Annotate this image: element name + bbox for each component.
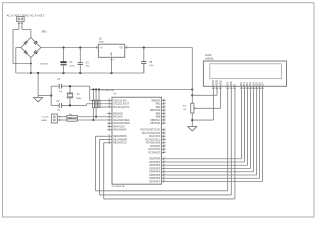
wire osc caps common: [50, 86, 52, 105]
U1 pin 29 RD6/PSP6: [149, 177, 165, 180]
crystal X1: [67, 86, 73, 105]
U1 pin 35 RB2: [156, 105, 166, 108]
U1 pin 28 RD5/PSP5: [149, 173, 165, 176]
LCD pin 12 D5: [254, 82, 258, 90]
bridge rectifier BR1: [21, 38, 41, 58]
svg-text:RB3/PGM: RB3/PGM: [150, 110, 160, 112]
junction W rail: [191, 88, 193, 90]
value 2W005G: [40, 63, 48, 65]
LCD pin 6 E: [233, 84, 237, 90]
junction W R5: [98, 88, 100, 90]
label U1: [113, 93, 117, 96]
U1 pin 6 RA4/T0CKI: [107, 125, 125, 128]
connector J2 (AC input): [17, 17, 24, 30]
junction W R4: [95, 88, 97, 90]
svg-text:2: 2: [113, 60, 114, 62]
LCD screen: [210, 64, 282, 79]
svg-text:100n: 100n: [149, 65, 153, 67]
svg-text:C8: C8: [149, 62, 153, 64]
U1 pin 18 RC3/SCK/SCL: [145, 138, 165, 141]
svg-text:OSC2/CLKOUT: OSC2/CLKOUT: [113, 104, 130, 106]
svg-text:RD7/PSP7: RD7/PSP7: [149, 181, 161, 183]
wire RD7 to LCD D7: [166, 90, 263, 182]
svg-text:RD5/PSP5: RD5/PSP5: [149, 175, 161, 177]
junction bridge bottom: [30, 63, 32, 65]
svg-text:RB1: RB1: [156, 104, 161, 106]
U1 pin 40 RB7/PGD: [150, 122, 165, 125]
svg-text:BR1: BR1: [42, 30, 47, 33]
U1 pin 8 RE0/AN5/RD: [107, 135, 127, 138]
svg-text:RD0/PSP0: RD0/PSP0: [149, 159, 161, 161]
svg-text:22p: 22p: [59, 91, 62, 93]
label X1 4MHz: [76, 94, 81, 100]
svg-text:40: 40: [163, 122, 165, 124]
junction X1 bottom: [69, 104, 71, 106]
wire bridge bottom vertex to ground bus: [30, 58, 32, 74]
wire RD0 to LCD D0: [166, 90, 242, 159]
U1 pin 5 RA3/AN3/VREF+: [107, 122, 131, 125]
svg-text:22: 22: [163, 167, 165, 169]
label C2 22p: [57, 101, 61, 111]
svg-text:4MHz: 4MHz: [76, 98, 81, 100]
svg-text:RE0/AN5/RD: RE0/AN5/RD: [113, 135, 127, 138]
U1 pin 19 RD0/PSP0: [149, 157, 165, 160]
label LCD4 LM016L: [205, 54, 214, 60]
svg-text:9: 9: [246, 88, 247, 90]
U1 pin 36 RB3/PGM: [150, 109, 166, 112]
svg-text:CLOCK: CLOCK: [41, 117, 49, 119]
svg-text:E: E: [233, 84, 237, 86]
wire bridge left vertex to ground bus: [16, 48, 21, 74]
wire rail bridge to U2: [41, 47, 99, 49]
capacitor C8: [141, 48, 146, 74]
op-amp U1 body: [112, 97, 161, 184]
junction bus at C4: [79, 72, 81, 74]
svg-text:5: 5: [230, 88, 231, 90]
U1 pin 22 RD3/PSP3: [149, 167, 165, 170]
junction W R3: [92, 88, 94, 90]
svg-text:100n: 100n: [86, 66, 90, 68]
svg-text:RB7/PGD: RB7/PGD: [150, 123, 160, 125]
svg-text:1: 1: [96, 46, 97, 48]
label PIC16F877A: [112, 185, 125, 188]
LCD pin 11 D4: [251, 82, 255, 90]
capacitor C1: [51, 84, 89, 89]
U1 pin 38 RB5: [156, 115, 166, 118]
wire DATA to RA2: [77, 119, 107, 121]
capacitor C3: [60, 48, 66, 74]
wire bus to ground symbol: [37, 73, 39, 97]
wire OSC1: [90, 86, 108, 100]
U1 pin 20 RD1/PSP1: [149, 160, 165, 163]
U1 pin 15 RC0/T1OSO/T1CKI: [140, 128, 165, 131]
U1 pin 33 RB0/INT: [152, 99, 166, 102]
U1 pin 10 RE2/AN7/CS: [107, 141, 127, 144]
svg-text:RC5/SDO: RC5/SDO: [150, 146, 160, 148]
svg-text:5: 5: [108, 122, 109, 124]
svg-text:AC 6 VOLT 50HZ AC 6 VOLT: AC 6 VOLT 50HZ AC 6 VOLT: [7, 14, 45, 18]
junction bus at gnd symbol: [37, 72, 39, 74]
svg-text:OSC1/CLKIN: OSC1/CLKIN: [113, 100, 127, 102]
svg-text:39: 39: [163, 118, 165, 120]
U1 pin 26 RC7/RX/DT: [148, 151, 165, 154]
svg-text:34: 34: [163, 102, 165, 104]
label R1 10k: [69, 114, 73, 116]
svg-text:U2: U2: [99, 37, 103, 40]
wire RD2 to LCD D2: [166, 90, 248, 166]
LCD pin 1 VSS: [211, 80, 215, 90]
svg-text:22p: 22p: [57, 110, 60, 112]
U1 pin 13 OSC1/CLKIN: [107, 99, 127, 102]
junction rail at C8: [143, 46, 145, 48]
svg-text:2: 2: [108, 112, 109, 114]
junction rail VDD: [191, 94, 193, 96]
U1 pin 2 RA0/AN0: [107, 112, 123, 115]
svg-text:25: 25: [163, 148, 165, 150]
wire RD3 to LCD D3: [166, 90, 251, 169]
svg-text:3: 3: [127, 46, 128, 48]
resistor R1 (CLOCK series): [67, 116, 78, 118]
svg-text:28: 28: [163, 173, 165, 175]
wire RE1 to LCD RW: [100, 90, 232, 195]
svg-text:RA0/AN0: RA0/AN0: [113, 112, 123, 115]
capacitor C2: [51, 103, 86, 108]
svg-text:C1: C1: [57, 79, 61, 81]
resistor R3 (pull-up): [92, 90, 94, 121]
svg-text:15: 15: [163, 128, 165, 130]
svg-text:30: 30: [163, 180, 165, 182]
svg-text:13: 13: [257, 88, 259, 90]
wire J1 pin1: [57, 116, 67, 118]
svg-text:C2: C2: [57, 101, 61, 103]
svg-text:38: 38: [163, 115, 165, 117]
svg-text:1: 1: [212, 88, 213, 90]
svg-text:18: 18: [163, 138, 165, 140]
label BR1: [42, 30, 47, 33]
svg-text:RC6/TX/CK: RC6/TX/CK: [148, 149, 160, 151]
svg-text:C4: C4: [86, 62, 90, 64]
svg-text:U1: U1: [113, 93, 117, 96]
wire rail U2 to LCD branch: [125, 47, 193, 49]
labels CLOCK DATA: [41, 117, 49, 123]
junction rail VSS: [191, 119, 193, 121]
wire AC left to DC- node: [13, 29, 31, 63]
svg-text:24: 24: [163, 144, 165, 146]
svg-text:MCLR/Vpp/THV: MCLR/Vpp/THV: [113, 107, 130, 109]
wire RE0 to LCD RS: [96, 90, 228, 191]
junction bus at U2 gnd: [110, 72, 112, 74]
connector J1: [51, 114, 57, 123]
svg-text:7: 7: [240, 88, 241, 90]
wire RD1 to LCD D1: [166, 90, 245, 162]
svg-text:7805: 7805: [99, 42, 105, 44]
U1 pin 23 RC4/SDI/SDA: [146, 141, 166, 144]
AC input label: [7, 14, 45, 18]
wire rail down to pot: [191, 48, 193, 104]
svg-text:RA2/AN2/VREF-: RA2/AN2/VREF-: [113, 119, 130, 122]
LCD pin 3 VEE: [218, 80, 222, 90]
ground symbol (pot): [188, 127, 197, 131]
label C4 100n: [86, 62, 90, 67]
svg-text:2: 2: [215, 88, 216, 90]
svg-text:27: 27: [163, 170, 165, 172]
svg-text:RA3/AN3/VREF+: RA3/AN3/VREF+: [113, 122, 131, 125]
svg-text:RB0/INT: RB0/INT: [152, 100, 161, 102]
label PIC16F877A (top): [101, 89, 114, 92]
svg-text:33: 33: [163, 99, 165, 101]
regulator U2 7805 body: [98, 44, 124, 57]
svg-text:RE2/AN7/CS: RE2/AN7/CS: [113, 142, 127, 145]
svg-text:3: 3: [108, 115, 109, 117]
LCD pin 7 D0: [239, 82, 243, 90]
svg-text:X1: X1: [77, 94, 81, 96]
svg-text:4: 4: [108, 118, 109, 120]
svg-text:RB4: RB4: [156, 113, 161, 115]
U1 pin 24 RC5/SDO: [150, 144, 165, 147]
svg-text:RB5: RB5: [156, 117, 161, 119]
svg-text:6: 6: [108, 125, 109, 127]
svg-text:23: 23: [163, 141, 165, 143]
svg-text:RD6/PSP6: RD6/PSP6: [149, 178, 161, 180]
svg-text:1: 1: [108, 105, 109, 107]
wire AC right to bridge top: [22, 29, 31, 37]
wire U2 GND to bus: [111, 57, 113, 73]
svg-text:1000u: 1000u: [69, 65, 74, 67]
wire RE2 to LCD E: [104, 90, 235, 199]
junction osc common: [50, 94, 52, 96]
svg-text:10: 10: [248, 88, 250, 90]
svg-text:VO: VO: [119, 48, 123, 50]
wire pot to ground: [191, 113, 193, 126]
svg-text:10: 10: [108, 141, 110, 143]
U1 pin 9 RE1/AN6/WR: [107, 138, 127, 141]
U1 pin 34 RB1: [156, 102, 166, 105]
svg-text:19: 19: [163, 157, 165, 159]
svg-text:DATA: DATA: [41, 119, 47, 122]
svg-text:RC4/SDI/SDA: RC4/SDI/SDA: [146, 142, 161, 145]
wire OSC2: [87, 104, 108, 106]
svg-text:13: 13: [108, 99, 110, 101]
svg-text:RA4/T0CKI: RA4/T0CKI: [113, 125, 125, 128]
junction R3 DATA: [92, 119, 94, 121]
svg-text:RC3/SCK/SCL: RC3/SCK/SCL: [145, 139, 161, 141]
wire gnd to LCD VSS: [192, 86, 213, 120]
LCD pin 5 RW: [229, 81, 233, 90]
wire R5 to MCLR: [99, 106, 107, 109]
label U2 7805: [99, 37, 105, 43]
svg-text:RD4/PSP4: RD4/PSP4: [149, 172, 161, 174]
svg-text:12: 12: [254, 88, 256, 90]
svg-text:21: 21: [163, 164, 165, 166]
U1 pin 30 RD7/PSP7: [149, 180, 165, 183]
svg-text:RE1/AN6/WR: RE1/AN6/WR: [113, 138, 127, 141]
svg-text:RD2/PSP2: RD2/PSP2: [149, 165, 161, 167]
svg-text:2W005G: 2W005G: [40, 63, 48, 65]
svg-text:RA1/AN1: RA1/AN1: [113, 116, 123, 119]
U1 pin 3 RA1/AN1: [107, 115, 123, 118]
wire +5V to LCD VDD: [192, 86, 217, 95]
junction rail at C3: [62, 46, 64, 48]
svg-text:8: 8: [108, 135, 109, 137]
svg-text:RC1/T1OSI/CCP2: RC1/T1OSI/CCP2: [142, 133, 161, 135]
U1 pin 39 RB6/PGC: [150, 118, 165, 121]
junction R4 CLOCK: [95, 116, 97, 118]
svg-text:10K: 10K: [183, 109, 187, 111]
resistor R4 (pull-up): [95, 90, 97, 117]
resistor R2 (DATA series): [67, 119, 78, 121]
wire ground bus: [16, 64, 144, 74]
svg-text:RB6/PGC: RB6/PGC: [150, 120, 160, 122]
svg-text:29: 29: [163, 177, 165, 179]
svg-text:PIC16F877A: PIC16F877A: [101, 89, 114, 92]
svg-text:3: 3: [219, 88, 220, 90]
wire osc common to ground: [38, 95, 51, 97]
svg-text:14: 14: [108, 102, 110, 104]
svg-text:6: 6: [233, 88, 234, 90]
capacitor C4: [78, 48, 83, 74]
svg-text:GND: GND: [111, 52, 113, 57]
svg-text:RD1/PSP1: RD1/PSP1: [149, 162, 161, 164]
svg-text:LM016L: LM016L: [205, 57, 214, 60]
svg-text:17: 17: [163, 135, 165, 137]
svg-text:RC0/T1OSO/T1CKI: RC0/T1OSO/T1CKI: [140, 130, 160, 132]
U1 pin 7 RA5/AN4/SS: [107, 128, 127, 131]
svg-text:RV1: RV1: [183, 105, 187, 107]
svg-text:9: 9: [108, 138, 109, 140]
LCD pin 8 D1: [242, 82, 246, 90]
svg-text:14: 14: [260, 88, 262, 90]
LCD pin 14 D7: [260, 82, 264, 90]
wire RD5 to LCD D5: [166, 90, 257, 175]
svg-text:D7: D7: [260, 82, 264, 86]
label C1 22p: [57, 79, 62, 93]
wire CLOCK to RA1: [77, 116, 107, 118]
svg-text:11: 11: [251, 88, 253, 90]
U2 pin ticks and numbers: [96, 46, 98, 48]
svg-text:VEE: VEE: [218, 80, 222, 86]
wire J1 pin2: [57, 119, 67, 121]
svg-text:C3: C3: [69, 62, 73, 64]
U1 pin 21 RD2/PSP2: [149, 164, 165, 167]
wire +5V to pull-ups: [90, 89, 193, 91]
U1 pin 16 RC1/T1OSI/CCP2: [142, 131, 166, 134]
svg-text:26: 26: [163, 151, 165, 153]
U1 pin 27 RD4/PSP4: [149, 170, 165, 173]
svg-text:36: 36: [163, 109, 165, 111]
svg-text:20: 20: [163, 160, 165, 162]
svg-text:8: 8: [243, 88, 244, 90]
resistor R5 (MCLR pull-up): [98, 90, 100, 108]
label C8 100n: [149, 62, 153, 67]
svg-text:RB2: RB2: [156, 107, 161, 109]
junction rail at C4: [79, 46, 81, 48]
svg-text:RA5/AN4/SS: RA5/AN4/SS: [113, 129, 127, 132]
U1 pin 37 RB4: [156, 112, 166, 115]
LCD LCD4 body: [203, 61, 286, 86]
junction bus at C3: [62, 72, 64, 74]
svg-text:35: 35: [163, 105, 165, 107]
LCD pin 10 D3: [248, 82, 252, 90]
svg-text:37: 37: [163, 112, 165, 114]
label C3 1000u: [69, 62, 74, 67]
U1 pin 1 MCLR/Vpp/THV: [107, 105, 130, 108]
U1 pin 14 OSC2/CLKOUT: [107, 102, 130, 105]
svg-text:16: 16: [163, 131, 165, 133]
wire RD4 to LCD D4: [166, 90, 254, 172]
svg-text:7: 7: [108, 128, 109, 130]
LCD pin 2 VDD: [215, 80, 219, 90]
svg-text:4: 4: [226, 88, 227, 90]
svg-text:RC2/CCP1: RC2/CCP1: [149, 136, 161, 138]
svg-text:RD3/PSP3: RD3/PSP3: [149, 168, 161, 170]
U1 pin 17 RC2/CCP1: [149, 135, 166, 138]
LCD pin 9 D2: [245, 82, 249, 90]
U1 pin 25 RC6/TX/CK: [148, 148, 165, 151]
LCD pin 4 RS: [225, 82, 229, 90]
label RV1 10K: [183, 105, 187, 110]
wire wiper to LCD VEE: [194, 86, 221, 108]
resistor RV1 (contrast): [191, 103, 196, 113]
svg-text:RC7/RX/DT: RC7/RX/DT: [148, 152, 161, 154]
label R2 10k: [69, 117, 73, 119]
wire RD6 to LCD D6: [166, 90, 260, 179]
junction X1 top: [69, 85, 71, 87]
LCD pin 13 D6: [257, 82, 261, 90]
svg-text:PIC16F877A: PIC16F877A: [112, 185, 125, 188]
U1 pin 4 RA2/AN2/VREF-: [107, 118, 130, 121]
svg-text:VI: VI: [100, 48, 103, 50]
ground symbol (osc): [34, 98, 43, 102]
